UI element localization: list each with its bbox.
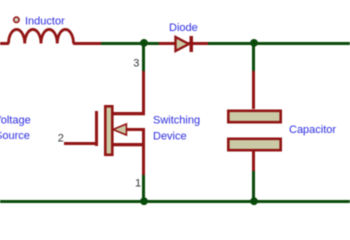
label Switching Device xyxy=(153,115,200,143)
label Voltage Source xyxy=(0,115,31,142)
wire top rail xyxy=(101,42,350,45)
diode D1 xyxy=(159,36,208,52)
wire bottom rail xyxy=(0,200,350,203)
label Inductor xyxy=(25,15,65,27)
node A junction dot xyxy=(140,39,148,47)
transistor Q1 switching device xyxy=(64,71,145,175)
pin 2 label xyxy=(58,133,64,145)
svg-text:3: 3 xyxy=(133,57,139,69)
wire switch source to bottom rail xyxy=(142,175,145,201)
svg-text:Source: Source xyxy=(0,130,30,142)
svg-text:Inductor: Inductor xyxy=(25,15,65,27)
wire node B to capacitor xyxy=(252,44,255,71)
label Diode xyxy=(169,22,198,34)
svg-text:Capacitor: Capacitor xyxy=(289,124,336,136)
pin 3 label xyxy=(133,57,139,69)
wire node A to switch drain xyxy=(142,44,145,71)
label Capacitor xyxy=(289,124,336,136)
svg-text:1: 1 xyxy=(135,178,141,190)
svg-text:Device: Device xyxy=(153,131,187,143)
node A' bottom junction dot xyxy=(140,197,148,205)
svg-text:Diode: Diode xyxy=(169,22,198,34)
capacitor C1 xyxy=(228,71,280,171)
node B junction dot xyxy=(250,39,258,47)
node B' bottom junction dot xyxy=(250,197,258,205)
svg-text:Switching: Switching xyxy=(153,115,200,127)
wire capacitor to bottom rail xyxy=(252,171,255,201)
inductor L1 xyxy=(0,17,101,45)
svg-text:Voltage: Voltage xyxy=(0,115,31,127)
pin 1 label xyxy=(135,178,141,190)
svg-text:2: 2 xyxy=(58,133,64,145)
